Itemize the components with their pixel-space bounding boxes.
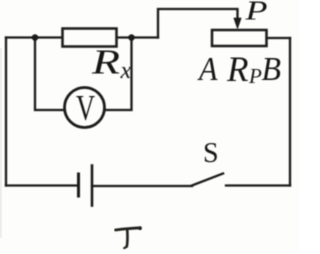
svg-text:R: R: [91, 43, 120, 82]
svg-text:V: V: [76, 88, 95, 128]
svg-text:B: B: [262, 51, 282, 88]
svg-text:x: x: [120, 58, 132, 84]
svg-text:P: P: [244, 0, 267, 26]
svg-text:P: P: [248, 64, 262, 88]
svg-text:S: S: [203, 138, 219, 169]
svg-text:A: A: [197, 51, 217, 88]
svg-text:R: R: [226, 49, 248, 89]
